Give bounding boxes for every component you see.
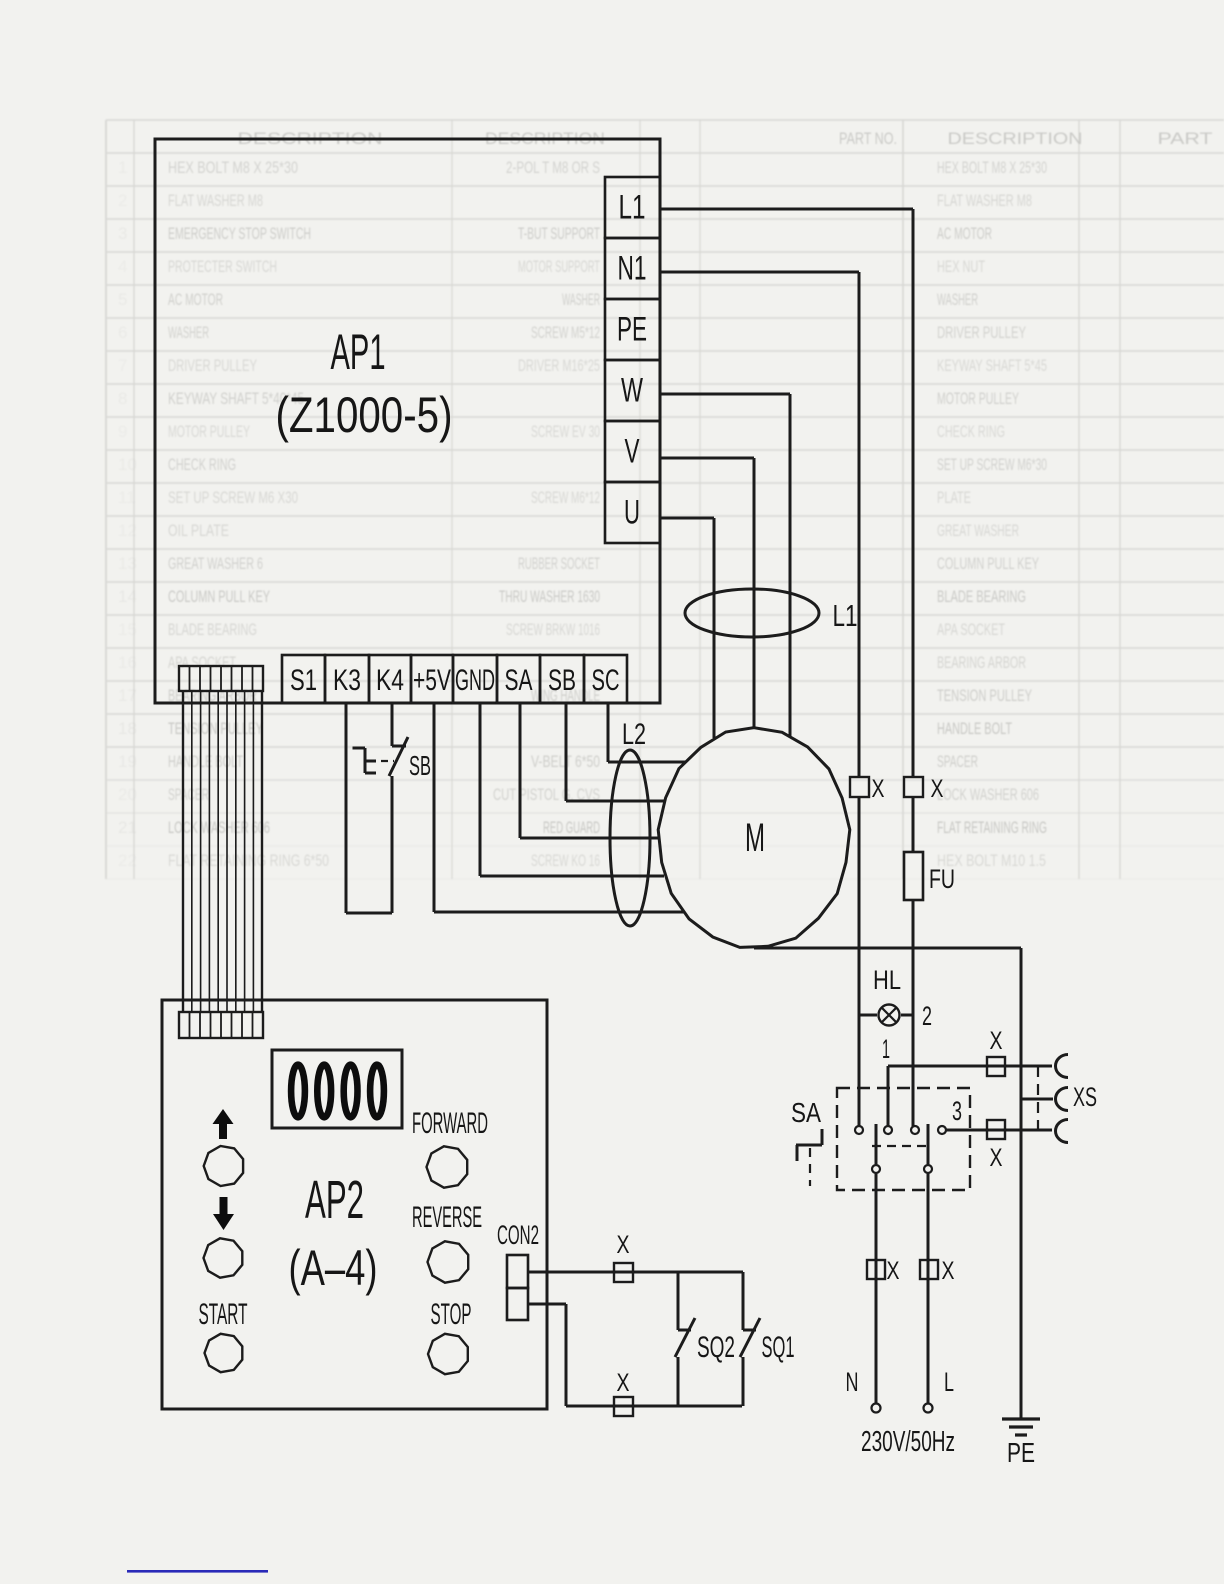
svg-text:AC MOTOR: AC MOTOR [168,290,223,309]
svg-text:8: 8 [118,389,127,408]
svg-text:BLADE BEARING: BLADE BEARING [168,620,257,639]
svg-text:SCREW EV 30: SCREW EV 30 [531,422,600,441]
svg-text:MOTOR PULLEY: MOTOR PULLEY [168,422,250,441]
svg-text:FLAT WASHER M8: FLAT WASHER M8 [168,191,263,210]
svg-text:FLAT WASHER M8: FLAT WASHER M8 [937,191,1032,210]
svg-text:SCREW KO 16: SCREW KO 16 [531,851,600,870]
svg-text:EMERGENCY STOP SWITCH: EMERGENCY STOP SWITCH [168,224,311,243]
svg-text:S1: S1 [290,664,317,697]
svg-text:HL: HL [873,965,901,995]
svg-text:X: X [990,1027,1003,1055]
svg-text:SQ2: SQ2 [697,1331,735,1364]
svg-text:GND: GND [455,664,495,697]
svg-text:6: 6 [118,323,127,342]
svg-text:CON2: CON2 [497,1220,539,1250]
svg-text:SET UP SCREW M6*30: SET UP SCREW M6*30 [937,455,1047,474]
svg-text:N: N [846,1367,859,1397]
svg-text:FORWARD: FORWARD [412,1107,488,1140]
svg-text:SC: SC [592,664,620,697]
svg-text:W: W [621,372,643,410]
svg-text:SPACER: SPACER [168,785,209,804]
svg-text:1: 1 [118,158,127,177]
svg-text:MOTOR SUPPORT: MOTOR SUPPORT [518,257,600,276]
svg-text:K3: K3 [333,664,361,697]
svg-text:3: 3 [118,224,127,243]
svg-text:X: X [931,775,944,803]
svg-text:WASHER: WASHER [168,323,209,342]
svg-text:FU: FU [929,864,955,894]
svg-text:L1: L1 [833,598,858,633]
svg-text:PLATE: PLATE [937,488,971,507]
svg-text:22: 22 [118,851,137,870]
svg-text:17: 17 [118,686,137,705]
svg-text:11: 11 [118,488,136,507]
svg-text:GREAT WASHER 6: GREAT WASHER 6 [168,554,263,573]
svg-text:CHECK RING: CHECK RING [168,455,236,474]
svg-text:21: 21 [118,818,137,837]
svg-text:1: 1 [882,1034,890,1064]
svg-text:16: 16 [118,653,137,672]
svg-text:SA: SA [791,1097,821,1128]
svg-text:SQ1: SQ1 [762,1331,795,1364]
svg-text:13: 13 [118,554,137,573]
svg-text:SCREW BRKW 1016: SCREW BRKW 1016 [506,620,600,639]
svg-text:2: 2 [922,1001,932,1031]
svg-text:X: X [617,1369,630,1397]
svg-text:COLUMN PULL KEY: COLUMN PULL KEY [168,587,270,606]
svg-text:APA SOCKET: APA SOCKET [937,620,1005,639]
svg-text:KEYWAY SHAFT 5*45: KEYWAY SHAFT 5*45 [937,356,1047,375]
svg-text:COLUMN PULL KEY: COLUMN PULL KEY [937,554,1039,573]
svg-text:RED GUARD: RED GUARD [543,818,600,837]
svg-text:X: X [942,1257,955,1285]
svg-text:SCREW M5*12: SCREW M5*12 [531,323,600,342]
svg-text:OIL PLATE: OIL PLATE [168,521,229,540]
svg-text:K4: K4 [376,664,404,697]
svg-text:SA: SA [505,664,533,697]
svg-text:3: 3 [952,1096,962,1126]
svg-text:AC MOTOR: AC MOTOR [937,224,992,243]
svg-text:FLAT RETAINING RING: FLAT RETAINING RING [937,818,1047,837]
svg-text:PE: PE [617,311,647,349]
svg-text:(A–4): (A–4) [289,1240,378,1296]
svg-text:5: 5 [118,290,127,309]
svg-text:REVERSE: REVERSE [412,1201,482,1234]
svg-text:THRU WASHER 1630: THRU WASHER 1630 [499,587,600,606]
svg-text:GREAT WASHER: GREAT WASHER [937,521,1019,540]
svg-text:12: 12 [118,521,137,540]
svg-text:20: 20 [118,785,137,804]
svg-text:XS: XS [1073,1082,1097,1112]
svg-text:N1: N1 [618,250,647,288]
svg-text:BEARING ARBOR: BEARING ARBOR [937,653,1026,672]
svg-text:START: START [199,1298,248,1331]
svg-text:HEX BOLT M8 X 25*30: HEX BOLT M8 X 25*30 [937,158,1047,177]
svg-text:DRIVER M16*25: DRIVER M16*25 [518,356,600,375]
svg-text:19: 19 [118,752,137,771]
svg-text:2-POL T M8 OR S: 2-POL T M8 OR S [506,158,600,177]
svg-text:AP2: AP2 [305,1170,364,1230]
svg-text:X: X [872,775,885,803]
svg-text:M: M [745,816,765,860]
svg-text:SCREW M6*12: SCREW M6*12 [531,488,600,507]
svg-text:SB: SB [409,750,431,781]
svg-text:230V/50Hz: 230V/50Hz [861,1426,955,1458]
svg-text:CHECK RING: CHECK RING [937,422,1005,441]
svg-text:DRIVER PULLEY: DRIVER PULLEY [168,356,257,375]
svg-text:2: 2 [118,191,127,210]
svg-text:MOTOR PULLEY: MOTOR PULLEY [937,389,1019,408]
svg-text:PROTECTER SWITCH: PROTECTER SWITCH [168,257,277,276]
svg-text:RUBBER SOCKET: RUBBER SOCKET [518,554,600,573]
svg-text:(Z1000-5): (Z1000-5) [276,387,453,443]
svg-text:SB: SB [548,664,576,697]
svg-text:DESCRIPTION: DESCRIPTION [948,129,1083,148]
svg-text:15: 15 [118,620,137,639]
svg-text:HEX BOLT M8 X 25*30: HEX BOLT M8 X 25*30 [168,158,298,177]
svg-text:7: 7 [118,356,127,375]
svg-text:V: V [625,433,640,471]
svg-text:TENSION PULLEY: TENSION PULLEY [937,686,1032,705]
svg-text:SET UP SCREW M6 X30: SET UP SCREW M6 X30 [168,488,298,507]
svg-text:WASHER: WASHER [937,290,978,309]
svg-text:PART NO.: PART NO. [839,129,897,148]
svg-text:9: 9 [118,422,127,441]
svg-text:SPACER: SPACER [937,752,978,771]
svg-text:10: 10 [118,455,137,474]
svg-text:DRIVER PULLEY: DRIVER PULLEY [937,323,1026,342]
svg-text:T-BUT SUPPORT: T-BUT SUPPORT [518,224,600,243]
svg-text:PE: PE [1007,1437,1035,1468]
svg-text:L1: L1 [619,189,646,227]
svg-text:HANDLE BOLT: HANDLE BOLT [937,719,1012,738]
svg-text:L2: L2 [622,718,646,751]
svg-text:HEX NUT: HEX NUT [937,257,985,276]
svg-text:AP1: AP1 [331,324,386,380]
svg-text:LOCK WASHER 606: LOCK WASHER 606 [937,785,1039,804]
svg-text:WASHER: WASHER [562,290,600,309]
svg-text:X: X [617,1231,630,1259]
svg-text:X: X [990,1144,1003,1172]
svg-text:14: 14 [118,587,137,606]
svg-text:U: U [624,494,640,532]
svg-text:+5V: +5V [413,664,451,697]
svg-text:PART: PART [1158,129,1213,148]
svg-text:4: 4 [118,257,127,276]
svg-text:L: L [944,1367,954,1397]
svg-text:HANDLE BOLT: HANDLE BOLT [168,752,243,771]
svg-text:X: X [887,1257,900,1285]
svg-text:18: 18 [118,719,137,738]
svg-text:STOP: STOP [431,1298,472,1331]
svg-text:BLADE BEARING: BLADE BEARING [937,587,1026,606]
